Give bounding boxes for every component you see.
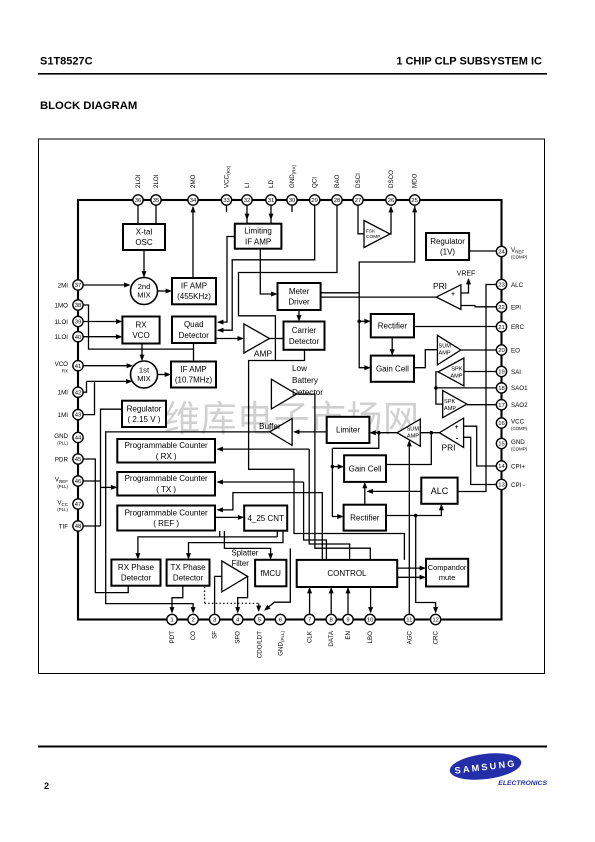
svg-text:Limiting: Limiting [244, 227, 272, 236]
pin 11 bottom [404, 614, 414, 624]
svg-text:2LOI: 2LOI [135, 174, 142, 188]
wire pin23 ALC to ALC block [458, 285, 496, 492]
pin 6 bottom [275, 614, 285, 624]
wire pin46 VREF PLL [83, 480, 101, 482]
svg-text:Programmable Counter: Programmable Counter [125, 509, 208, 518]
pin 41 left [73, 361, 83, 371]
dotted lock detect to pin5 [204, 587, 206, 604]
svg-text:IF AMP: IF AMP [180, 365, 206, 374]
wire stub 4_25 CNT bottom [276, 531, 278, 537]
svg-text:SFO: SFO [235, 631, 242, 644]
pin 19 right [496, 366, 506, 376]
svg-text:+: + [455, 424, 459, 431]
pin 46 left [73, 476, 83, 486]
svg-text:46: 46 [75, 479, 82, 485]
amplifier SUM AMP 1 [437, 335, 460, 365]
pin 24 right [496, 246, 506, 256]
svg-text:PDT: PDT [169, 631, 176, 644]
svg-text:31: 31 [268, 198, 275, 204]
svg-text:16: 16 [498, 421, 505, 427]
svg-text:44: 44 [75, 436, 82, 442]
svg-text:23: 23 [498, 283, 505, 289]
svg-text:1 CHIP CLP SUBSYSTEM IC: 1 CHIP CLP SUBSYSTEM IC [396, 56, 542, 68]
wire PRI to Meter Driver [321, 296, 437, 298]
block RX VCO [122, 317, 159, 344]
wire pin42 1MI to 1st MIX [83, 381, 87, 392]
svg-text:AMP: AMP [444, 406, 456, 412]
block IF AMP 10.7MHz [171, 362, 216, 388]
svg-text:2LOI: 2LOI [153, 174, 160, 188]
block ALC [421, 478, 457, 504]
svg-text:LD: LD [268, 180, 275, 188]
wire VREF reference into PRI [461, 279, 469, 293]
svg-text:43: 43 [75, 413, 82, 419]
buffer amplifier [270, 419, 293, 446]
svg-text:26: 26 [388, 198, 395, 204]
pin 43 left [73, 409, 83, 419]
svg-text:PRI: PRI [442, 443, 456, 453]
block TX Phase Detector [167, 560, 210, 586]
svg-text:GND: GND [54, 433, 68, 440]
junction limiter input [377, 431, 381, 435]
svg-text:DATA: DATA [328, 630, 335, 646]
amplifier SPK AMP 1 [438, 358, 464, 386]
wire CONTROL to Compandor mute lower [397, 576, 424, 578]
svg-text:OSC: OSC [135, 238, 153, 247]
wire AMP to Carrier Detector [270, 338, 284, 340]
wire Low Battery Detector to CONTROL trunk [297, 394, 371, 560]
svg-text:10: 10 [367, 618, 374, 624]
wire stub pin33 [226, 205, 228, 212]
pin 17 right [496, 400, 506, 410]
svg-text:BLOCK DIAGRAM: BLOCK DIAGRAM [40, 100, 137, 112]
wire Meter Driver to Carrier Detector [298, 310, 300, 320]
wire pin22 EPI to PRI [461, 306, 496, 307]
block fMCU [255, 560, 286, 587]
wire pin27 DSCI to FSK COMP [358, 205, 364, 234]
svg-text:Detector: Detector [179, 331, 210, 340]
wire Regulator 1V to pin24 [469, 250, 496, 252]
wire pin48 TIF [83, 525, 101, 527]
block Carrier Detector [284, 322, 325, 350]
svg-text:CONTROL: CONTROL [327, 569, 367, 578]
svg-text:ERC: ERC [511, 324, 525, 331]
block X-tal OSC [123, 224, 165, 250]
svg-text:19: 19 [498, 370, 505, 376]
wire X-tal OSC to 2nd MIX [143, 250, 145, 277]
svg-text:GND: GND [511, 439, 525, 446]
svg-text:33: 33 [223, 198, 230, 204]
wire Splatter Filter to pin4 SFO [238, 576, 248, 612]
svg-text:20: 20 [498, 348, 505, 354]
svg-text:MIX: MIX [137, 291, 151, 300]
svg-text:Gain Cell: Gain Cell [349, 464, 382, 473]
svg-text:AGC: AGC [406, 630, 413, 644]
wire shared 1MI input [87, 380, 131, 382]
svg-text:CRC: CRC [433, 630, 440, 644]
wire Rectifier1 to Gain Cell1 [391, 337, 393, 354]
svg-text:AMP: AMP [407, 434, 419, 440]
svg-text:AMP: AMP [254, 349, 273, 359]
wire Quad Detector to AMP [216, 338, 243, 340]
svg-text:FSK: FSK [366, 229, 376, 235]
wire Prog Counter REF to fMCU [224, 531, 270, 558]
svg-text:SAO2: SAO2 [511, 402, 528, 409]
svg-text:1MI: 1MI [58, 412, 69, 419]
svg-text:34: 34 [190, 198, 197, 204]
svg-text:RAO: RAO [334, 174, 341, 188]
pin 25 MDO top [410, 195, 420, 205]
mixer 2nd MIX [131, 278, 158, 305]
svg-text:TX Phase: TX Phase [170, 563, 206, 572]
wire branch to Prog Counter TX [101, 486, 116, 488]
svg-text:( RX ): ( RX ) [156, 452, 177, 461]
block Programmable Counter RX [117, 439, 215, 463]
block Programmable Counter TX [117, 472, 215, 496]
wire Gain Cell1 to SUM AMP1 [414, 350, 437, 368]
wire ALC block left to rectifier node [368, 490, 421, 492]
pin 38 left [73, 300, 83, 310]
pin 27 DSCI top [353, 195, 363, 205]
svg-text:(1V): (1V) [440, 248, 455, 257]
svg-text:DSCO: DSCO [388, 170, 395, 188]
svg-text:13: 13 [498, 483, 505, 489]
wire pin36 to X-tal OSC [137, 205, 139, 224]
mixer 1st MIX [131, 361, 158, 388]
junction SAO1 [434, 386, 438, 390]
wire IF AMP 455KHz to pin34 2MO [192, 207, 194, 278]
svg-text:(PLL): (PLL) [57, 507, 68, 512]
samsung logo ellipse [448, 750, 523, 784]
svg-text:Battery: Battery [292, 376, 319, 385]
svg-text:VCC: VCC [511, 419, 525, 426]
pin 34 2MO top [188, 195, 198, 205]
block Rectifier 1 [371, 314, 414, 337]
wire Limiter to Buffer [295, 431, 327, 433]
wire SPK AMP1 output to SPK AMP2 input [436, 372, 443, 404]
pin 7 bottom [304, 614, 314, 624]
svg-text:21: 21 [498, 325, 505, 331]
pin 44 left [73, 432, 83, 442]
svg-text:(455KHz): (455KHz) [177, 292, 211, 301]
svg-text:SUM: SUM [439, 344, 452, 350]
wire pin25 MDO trunk to Rectifier and Gain Cell [359, 206, 415, 368]
wire RX VCO to 1st MIX [141, 344, 143, 360]
svg-text:32: 32 [244, 198, 251, 204]
svg-text:2MI: 2MI [58, 282, 69, 289]
svg-text:35: 35 [153, 198, 160, 204]
wire PRI2 to SUM AMP2 [420, 432, 439, 434]
filter Splatter Filter [222, 561, 248, 592]
wire pin32 LI to Limiting IF AMP [246, 205, 248, 224]
svg-text:Limiter: Limiter [336, 426, 360, 435]
svg-text:AMP: AMP [439, 351, 451, 357]
wire node down to Gain Cell2 Rectifier2 riser [332, 433, 378, 449]
svg-text:IF AMP: IF AMP [181, 282, 207, 291]
amplifier PRI 1 [436, 285, 461, 310]
wire 4_25 CNT to TX Phase Detector [189, 531, 284, 558]
svg-text:QCI: QCI [312, 177, 319, 188]
block Rectifier 2 [344, 505, 386, 531]
svg-text:Rectifier: Rectifier [378, 322, 408, 331]
wire SPK AMP2 to pin17 SAO2 [467, 404, 496, 406]
pin 18 right [496, 383, 506, 393]
wire branch to pin12 CRC [416, 516, 436, 613]
wire CONTROL to Prog Counter REF [218, 493, 323, 560]
svg-text:Filter: Filter [232, 559, 250, 568]
pin 39 left [73, 316, 83, 326]
wire pin38 1MO [83, 305, 194, 349]
junction gain cell2 input [331, 465, 335, 469]
pin 22 right [496, 302, 506, 312]
svg-text:Programmable Counter: Programmable Counter [125, 441, 208, 450]
svg-text:11: 11 [406, 618, 412, 624]
pin 23 right [496, 279, 506, 289]
svg-text:Compandor: Compandor [428, 563, 467, 572]
svg-text:38: 38 [75, 303, 82, 309]
svg-text:30: 30 [289, 198, 296, 204]
junction CRC branch [414, 514, 418, 518]
svg-text:45: 45 [75, 457, 82, 463]
wire pin14 CPI+ to PRI2 [464, 426, 496, 466]
pin 48 left [73, 521, 83, 531]
block IF AMP 455KHz [172, 278, 216, 304]
pin 40 left [73, 332, 83, 342]
detector Low Battery Detector [271, 379, 296, 409]
svg-text:12: 12 [432, 618, 439, 624]
svg-text:Low: Low [292, 364, 307, 373]
wire Rectifier1 to pin21 ERC [414, 326, 496, 328]
pin 2 bottom [188, 614, 198, 624]
svg-text:Quad: Quad [184, 320, 204, 329]
wire pin7 CLK to CONTROL [309, 589, 311, 614]
svg-text:1LOI: 1LOI [55, 319, 69, 326]
riser Prog Counter TX feed to CONTROL [304, 482, 327, 560]
svg-text:24: 24 [498, 250, 505, 256]
pin 5 bottom [254, 614, 264, 624]
wire 2nd MIX to IF AMP 455KHz [158, 290, 171, 292]
block Regulator 1V [426, 233, 469, 260]
svg-text:(COMP): (COMP) [511, 426, 528, 431]
svg-text:2MO: 2MO [190, 174, 197, 188]
svg-text:LBO: LBO [367, 631, 374, 644]
svg-text:ELECTRONICS: ELECTRONICS [498, 780, 547, 787]
wire FSK COMP to pin26 DSCO [390, 207, 391, 234]
wire CONTROL to Prog Counter TX right [218, 481, 304, 483]
svg-text:EN: EN [345, 631, 352, 640]
svg-text:36: 36 [135, 198, 142, 204]
block CONTROL [297, 560, 398, 587]
pin 35 2LOI top [151, 195, 161, 205]
amplifier AMP [244, 324, 270, 353]
svg-text:2: 2 [191, 618, 194, 624]
svg-text:RX Phase: RX Phase [118, 563, 155, 572]
svg-text:Regulator: Regulator [127, 404, 162, 413]
wire pin3 SF to Splatter Filter [215, 576, 222, 613]
svg-text:Programmable Counter: Programmable Counter [125, 474, 208, 483]
svg-text:SUM: SUM [407, 427, 420, 433]
amplifier PRI 2 [439, 418, 463, 447]
svg-text:18: 18 [498, 386, 505, 392]
wire branch into Gain Cell2 [332, 466, 342, 468]
svg-text:PDR: PDR [55, 456, 69, 463]
svg-text:42: 42 [75, 390, 82, 396]
svg-text:CPI+: CPI+ [511, 463, 525, 470]
svg-text:RX: RX [62, 369, 68, 374]
svg-text:1MO: 1MO [55, 302, 69, 309]
amplifier SPK AMP 2 [443, 391, 467, 418]
wire pin35 to X-tal OSC [155, 205, 157, 224]
pin 36 2LOI top [133, 195, 143, 205]
svg-text:Detector: Detector [173, 574, 204, 583]
svg-text:( TX ): ( TX ) [156, 485, 176, 494]
wire tee down to Gain Cell2 and Rectifier2 inputs [332, 448, 342, 516]
pin 16 right [496, 418, 506, 428]
svg-text:mute: mute [439, 573, 455, 582]
svg-text:Rectifier: Rectifier [350, 513, 380, 522]
pin 30 GND top [287, 195, 297, 205]
wire pin37 2MI to 2nd MIX [83, 284, 129, 286]
svg-text:MIX: MIX [137, 374, 151, 383]
svg-text:7: 7 [308, 618, 311, 624]
figure border [39, 139, 545, 674]
wire Rectifier2 to Gain Cell2 [364, 483, 366, 504]
svg-text:28: 28 [334, 198, 341, 204]
wire Prog Counter REF to RX Phase Detector [138, 537, 277, 558]
wire pin43 1MI to 1st MIX [83, 381, 95, 414]
svg-text:(10.7MHz): (10.7MHz) [175, 376, 213, 385]
svg-text:S1T8527C: S1T8527C [40, 56, 93, 68]
block Regulator 2.15V [122, 401, 166, 427]
pin 10 bottom [365, 614, 375, 624]
wire Rectifier2 to ALC and pin12 CRC [386, 505, 441, 515]
svg-text:( REF ): ( REF ) [153, 519, 179, 528]
wire Carrier Detector to CONTROL [249, 350, 405, 560]
svg-text:(PLL): (PLL) [57, 484, 68, 489]
svg-text:22: 22 [498, 305, 505, 311]
block 4_25 CNT [244, 506, 287, 531]
svg-text:1MI: 1MI [58, 390, 69, 397]
svg-text:Meter: Meter [289, 287, 310, 296]
svg-text:CLK: CLK [307, 630, 314, 643]
riser Prog Counter RX feed to CONTROL [309, 449, 349, 560]
pin 28 RAO top [332, 195, 342, 205]
svg-text:4_25 CNT: 4_25 CNT [247, 514, 284, 523]
wire Prog Counter REF to 4_25 CNT [215, 516, 243, 518]
wire pin29 QCI to Quad Detector [218, 205, 315, 330]
svg-text:EPI: EPI [511, 304, 521, 311]
pin 20 right [496, 345, 506, 355]
svg-text:37: 37 [75, 283, 82, 289]
wire pin11 AGC to SUM AMP2 [408, 442, 410, 614]
pin 3 bottom [209, 614, 219, 624]
svg-text:Detector: Detector [292, 388, 323, 397]
svg-text:ALC: ALC [511, 282, 524, 289]
svg-text:2: 2 [44, 781, 49, 791]
block Programmable Counter REF [117, 506, 215, 531]
wire IF AMP 10.7MHz to Quad Detector [193, 343, 195, 362]
wire pin40 1LOI to RX VCO [83, 336, 121, 338]
pin 31 LD top [266, 195, 276, 205]
junction PRI2 output [430, 431, 434, 435]
pin 33 VCC top [221, 195, 231, 205]
svg-text:VCO: VCO [132, 331, 149, 340]
pin 42 left [73, 387, 83, 397]
svg-text:ALC: ALC [431, 486, 449, 496]
wire Buffer output to pin2 CO [106, 432, 270, 612]
junction MDO-rectifier [357, 320, 361, 324]
block Limiting IF AMP [235, 224, 282, 249]
wire to pin5 CDO [266, 548, 291, 609]
svg-text:(PLL): (PLL) [57, 440, 68, 445]
wire pin45 PDR to RX Phase Detector [83, 459, 128, 593]
svg-text:IF AMP: IF AMP [245, 237, 271, 246]
svg-text:( 2.15 V ): ( 2.15 V ) [128, 415, 161, 424]
svg-text:CDO/LDT: CDO/LDT [257, 631, 264, 658]
svg-text:SAI: SAI [511, 369, 521, 376]
svg-text:27: 27 [355, 198, 362, 204]
svg-text:9: 9 [346, 618, 349, 624]
wire SUM AMP2 to Limiter [371, 432, 397, 434]
arrow lock detect into pin5 [258, 603, 260, 610]
svg-text:SF: SF [212, 631, 219, 639]
pin 8 bottom [326, 614, 336, 624]
wire pin28 RAO [239, 205, 338, 361]
svg-text:VREF: VREF [457, 271, 476, 278]
wire pin8 DATA to CONTROL [330, 589, 332, 614]
svg-text:(COMP): (COMP) [511, 254, 528, 259]
wire branch MDO trunk to Rectifier [359, 320, 369, 322]
wire Limiting IF AMP to Meter Driver [260, 249, 276, 294]
pin 13 right [496, 479, 506, 489]
svg-text:EO: EO [511, 347, 520, 354]
svg-text:LI: LI [244, 183, 251, 188]
svg-text:TIF: TIF [59, 523, 68, 530]
wire pin31 LD to Limiting IF AMP [270, 205, 272, 224]
block RX Phase Detector [111, 560, 160, 586]
wire Meter Driver output to MDO trunk [321, 292, 360, 294]
svg-text:Regulator: Regulator [430, 237, 465, 246]
svg-text:SPK: SPK [451, 367, 462, 373]
svg-text:Detector: Detector [289, 337, 320, 346]
block Compandor mute [426, 559, 468, 587]
svg-text:RX: RX [135, 321, 147, 330]
svg-text:AMP: AMP [450, 374, 462, 380]
svg-text:Carrier: Carrier [292, 326, 317, 335]
svg-text:47: 47 [75, 502, 82, 508]
wire CONTROL to Prog Counter RX [218, 448, 310, 450]
pin 4 bottom [233, 614, 243, 624]
svg-text:VCO: VCO [55, 361, 69, 368]
block Gain Cell 1 [371, 356, 414, 382]
svg-text:Detector: Detector [121, 574, 152, 583]
main IC frame [78, 200, 502, 620]
wire pin41 VCO RX to 1st MIX [83, 365, 132, 367]
wire 1st MIX to IF AMP 10.7MHz [158, 374, 170, 376]
wire pin39 1LOI to RX VCO [83, 321, 121, 323]
svg-text:17: 17 [498, 403, 505, 409]
svg-text:SPK: SPK [444, 399, 455, 405]
wire Limiting IF AMP to Quad Detector [218, 237, 235, 323]
block Quad Detector [172, 317, 216, 344]
pin 26 DSCO top [386, 195, 396, 205]
pin 37 left [73, 280, 83, 290]
svg-text:15: 15 [498, 442, 505, 448]
pin 45 left [73, 454, 83, 464]
pin 12 bottom [430, 614, 440, 624]
pin 21 right [496, 322, 506, 332]
pin 1 bottom [167, 614, 177, 624]
